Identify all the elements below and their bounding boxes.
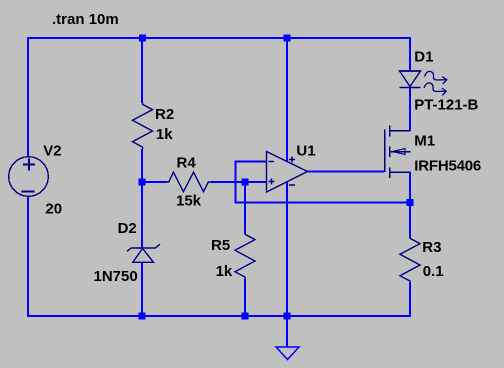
junction node top rail x142: [139, 35, 146, 42]
wire op-amp inverting input loop: [235, 161, 267, 204]
wire op-amp top supply pin from rail: [286, 38, 288, 162]
label D1: [414, 49, 433, 66]
value 20: [45, 201, 62, 218]
wire R3 to bottom rail: [409, 282, 411, 316]
op-amp U1: [267, 152, 308, 193]
wire D1 cathode to M1 drain: [409, 88, 411, 131]
wire R4 right lead to op-amp plus input: [211, 181, 267, 183]
wire top rail: [27, 37, 411, 39]
svg-text:R3: R3: [422, 239, 441, 256]
junction node R2 D2 R4: [139, 179, 146, 186]
resistor R2: [133, 103, 153, 150]
zener diode D2: [127, 244, 160, 262]
wire bottom rail: [27, 315, 411, 317]
junction node M1 source R3 sense: [407, 199, 414, 206]
svg-text:0.1: 0.1: [423, 263, 444, 280]
M1 body arrow: [393, 149, 406, 155]
resistor R5: [235, 233, 255, 280]
svg-text:IRFH5406: IRFH5406: [414, 158, 481, 175]
wire branch x245 lower (R5 to bottom rail): [244, 279, 246, 316]
wire branch x142 middle (R2 to D2): [141, 149, 143, 248]
svg-text:U1: U1: [296, 143, 315, 160]
value PT-121-B: [414, 97, 478, 114]
wire branch x245 upper (node to R5): [244, 182, 246, 234]
value IRFH5406: [414, 158, 481, 175]
svg-text:PT-121-B: PT-121-B: [414, 97, 478, 114]
wire left rail upper: [27, 37, 29, 157]
svg-text:20: 20: [45, 201, 62, 218]
junction node bottom rail x142: [139, 313, 146, 320]
junction node top rail x287: [284, 35, 291, 42]
nmos transistor M1: [385, 126, 411, 179]
wire op-amp bottom supply pin to bottom rail: [286, 183, 288, 317]
value 1k: [156, 126, 173, 143]
wire current sense line to R3 node: [235, 202, 411, 204]
value 15k: [176, 193, 202, 210]
value 0.1: [423, 263, 444, 280]
wire branch x142 top (rail to R2): [141, 38, 143, 103]
label R2: [155, 106, 174, 123]
voltage source V2: [9, 157, 49, 197]
junction node bottom rail x245: [242, 313, 249, 320]
svg-text:D1: D1: [414, 49, 433, 66]
junction node bottom rail x287 ground: [284, 313, 291, 320]
label R3: [422, 239, 441, 256]
svg-text:R4: R4: [177, 155, 197, 172]
svg-text:.tran 10m: .tran 10m: [52, 11, 119, 28]
resistor R3: [400, 237, 420, 284]
wire ground stub: [286, 316, 288, 347]
svg-text:1k: 1k: [216, 263, 233, 280]
value 1k: [216, 263, 233, 280]
svg-text:V2: V2: [43, 143, 61, 160]
svg-text:1N750: 1N750: [94, 268, 138, 285]
wire D1 anode from top rail: [409, 37, 411, 71]
LED D1 emission arrow 1: [425, 71, 447, 84]
label U1: [296, 143, 315, 160]
svg-text:15k: 15k: [176, 193, 202, 210]
svg-text:R2: R2: [155, 106, 174, 123]
label D2: [118, 220, 137, 237]
svg-text:1k: 1k: [156, 126, 173, 143]
wire left rail lower: [27, 196, 29, 317]
wire op-amp output to gate: [308, 171, 385, 173]
label R4: [177, 155, 197, 172]
label R5: [211, 237, 230, 254]
wire sense node to R3: [409, 203, 411, 238]
label V2: [43, 143, 61, 160]
svg-text:D2: D2: [118, 220, 137, 237]
ground: [276, 347, 299, 360]
wire branch x142 bottom (D2 to bottom rail): [141, 263, 143, 317]
wire R4 left lead: [142, 181, 167, 183]
value 1N750: [94, 268, 138, 285]
LED D1 emission arrow 2: [424, 83, 446, 96]
wire M1 source to sense node: [409, 172, 411, 203]
svg-text:R5: R5: [211, 237, 230, 254]
spice directive .tran 10m: [52, 11, 119, 28]
junction node R4 R5 plus-input: [242, 179, 249, 186]
label M1: [414, 133, 435, 150]
LED D1: [400, 71, 421, 88]
svg-text:M1: M1: [414, 133, 435, 150]
resistor R4: [166, 172, 212, 192]
